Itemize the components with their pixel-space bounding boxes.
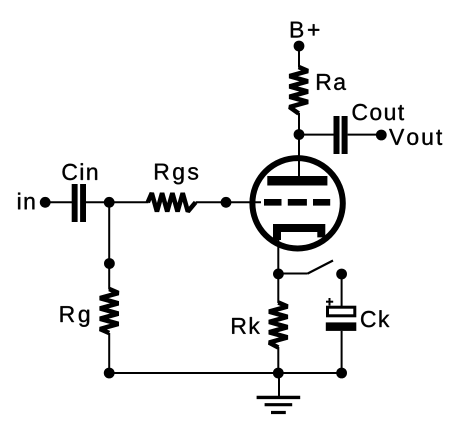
label Rg [61,306,90,327]
wire Cout to Vout [348,134,381,136]
tube V1 grid dashes [264,199,330,206]
label Ra [317,74,346,90]
tube V1 cathode [277,228,321,240]
switch SW1 blade (open) [308,261,334,274]
resistor Ra [290,67,308,114]
capacitor Cin [72,184,86,222]
wire Rgs to tube grid [196,201,261,203]
wire cathode node to switch pivot [278,273,307,275]
net label B+ [291,22,319,38]
wire Rg to ground rail [108,333,110,373]
wire anode node to Cout [299,134,334,136]
resistor Rgs [148,193,196,211]
wire B+ to Ra [298,46,300,68]
capacitor Cout [334,116,348,154]
resistor Rk [269,303,287,348]
resistor Rg [100,289,118,333]
wire grid node down to Rg [108,202,110,289]
label Cin [63,163,98,180]
ground symbol [257,397,301,412]
node Vout terminal dot [376,130,387,141]
wire Cin to grid node [86,201,149,203]
capacitor Ck polarity plus sign [326,298,333,306]
wire cathode node to Rk [277,274,279,303]
node anode junction dot [294,129,305,140]
node rail left junction dot [104,368,115,379]
wire switch to Ck [341,274,343,307]
net label Vout [389,129,442,145]
wire rail to ground symbol [278,373,280,397]
node Cin/Rg junction dot [104,197,115,208]
wire Ck to ground rail [341,331,343,373]
node rail center junction dot [273,368,284,379]
tube V1 envelope circle [252,158,342,248]
label Rk [232,317,260,334]
node Rg top junction dot [104,258,115,269]
label Rgs [155,164,198,185]
wire Rk to ground rail [277,347,279,373]
node rail right junction dot [336,368,347,379]
tube V1 anode plate bar [267,176,327,186]
label Ck [361,310,389,327]
label Cout [353,104,404,120]
wire ground rail [109,372,341,374]
node in terminal dot [40,197,51,208]
node B+ terminal dot [294,41,305,52]
node switch terminal dot [336,269,347,280]
capacitor Ck negative plate [326,322,357,331]
wire Ra to anode node and tube plate [298,113,300,177]
node cathode junction dot [273,269,284,280]
wire in to Cin [45,201,72,203]
capacitor Ck positive plate [328,307,355,316]
net label in [18,193,34,210]
wire cathode lead to cathode node [277,238,279,274]
node grid wire junction dot [221,197,232,208]
